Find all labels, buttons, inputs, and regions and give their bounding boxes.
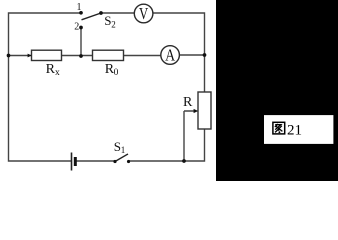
svg-text:V: V xyxy=(139,4,149,23)
svg-text:21: 21 xyxy=(287,123,302,139)
svg-text:R: R xyxy=(183,95,193,110)
svg-text:x: x xyxy=(55,68,60,78)
svg-text:1: 1 xyxy=(77,2,82,13)
svg-text:A: A xyxy=(165,45,176,64)
svg-text:2: 2 xyxy=(74,22,79,33)
svg-text:1: 1 xyxy=(121,145,126,155)
svg-text:2: 2 xyxy=(111,20,116,30)
svg-text:0: 0 xyxy=(114,68,119,78)
